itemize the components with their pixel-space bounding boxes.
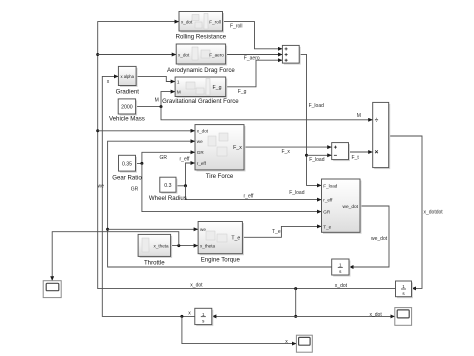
label F_load top xyxy=(309,103,325,109)
svg-text:M: M xyxy=(357,113,361,119)
svg-text:GR: GR xyxy=(131,186,139,192)
svg-text:F_x: F_x xyxy=(282,149,291,155)
subsystem Rolling Resistance xyxy=(176,12,227,41)
scope x_dot (right) xyxy=(395,308,412,326)
svg-text:we_dot: we_dot xyxy=(371,236,388,242)
label F_load bottom xyxy=(289,190,305,196)
wire x position feedback to Gradient xyxy=(102,76,195,316)
svg-text:r_eff: r_eff xyxy=(244,193,255,199)
svg-text:F_roll: F_roll xyxy=(209,19,221,24)
node x_dot branch to Aerodynamic Drag xyxy=(96,53,176,56)
svg-text:T_e: T_e xyxy=(231,235,240,241)
wire F_load from Add xyxy=(299,54,321,185)
svg-text:T_e: T_e xyxy=(323,224,331,229)
svg-text:Vehicle Mass: Vehicle Mass xyxy=(109,115,145,122)
sum block Add (F_roll+F_aero+F_g) xyxy=(282,45,300,64)
svg-text:x_theta: x_theta xyxy=(200,243,216,248)
svg-text:x_dot: x_dot xyxy=(178,52,190,57)
svg-text:we: we xyxy=(197,139,203,144)
svg-text:2000: 2000 xyxy=(121,105,133,111)
label M near Vehicle Mass xyxy=(155,97,159,103)
svg-text:x_dot: x_dot xyxy=(370,312,383,318)
label T_e xyxy=(272,229,281,235)
label x_dotdot xyxy=(424,209,444,215)
svg-text:GR: GR xyxy=(323,210,331,215)
svg-text:Rolling Resistance: Rolling Resistance xyxy=(176,34,227,41)
svg-text:F_t: F_t xyxy=(352,155,360,161)
label GR lower xyxy=(131,186,139,192)
sum block Sum (F_x - F_load) xyxy=(332,143,350,162)
svg-text:x: x xyxy=(188,310,191,316)
svg-text:F_g: F_g xyxy=(213,85,222,91)
node r_eff branch to we_dot subsystem xyxy=(184,184,321,199)
svg-text:F_load: F_load xyxy=(309,157,325,163)
label F_g xyxy=(238,89,247,95)
svg-text:M: M xyxy=(177,89,181,94)
label F_aero xyxy=(244,56,260,62)
svg-text:GR: GR xyxy=(197,150,205,155)
node x_theta branch to scope1 xyxy=(52,232,180,281)
svg-text:Tire Force: Tire Force xyxy=(206,173,234,180)
label M near divide xyxy=(357,113,361,119)
svg-text:x_dot: x_dot xyxy=(335,283,348,289)
svg-text:x_dot: x_dot xyxy=(190,283,203,289)
wire F_roll xyxy=(223,22,283,49)
wire M from Vehicle Mass xyxy=(136,92,175,107)
label F_load mid xyxy=(309,157,325,163)
label GR upper xyxy=(160,155,168,161)
wire x_dotdot Divide to integrator2 xyxy=(390,136,422,288)
svg-text:M: M xyxy=(155,97,159,103)
label F_t xyxy=(352,155,360,161)
node GR branch to we_dot subsystem xyxy=(140,162,321,212)
svg-text:Engine Torque: Engine Torque xyxy=(201,257,241,264)
label x_dot before scope xyxy=(370,312,383,318)
svg-text:1: 1 xyxy=(177,79,180,84)
svg-text:x alpha: x alpha xyxy=(120,74,134,79)
wire alpha Gradient to Gravitational xyxy=(136,76,175,81)
label x near Gradient xyxy=(107,79,110,85)
integrator 1/s we xyxy=(332,259,351,277)
svg-text:x: x xyxy=(107,79,110,85)
svg-text:0.35: 0.35 xyxy=(122,162,132,168)
label x at integrator3 xyxy=(188,310,191,316)
svg-text:we_dot: we_dot xyxy=(343,204,359,210)
wire T_e Engine Torque to we_dot subsystem xyxy=(242,226,321,237)
node x branch to scope3 xyxy=(180,315,296,344)
block Gradient xyxy=(116,66,140,95)
wire r_eff from Wheel Radius to Tire Force xyxy=(176,163,195,186)
node x_dot branch to Tire Force xyxy=(96,129,195,132)
svg-text:r_eff: r_eff xyxy=(323,198,333,203)
svg-text:Aerodynamic Drag Force: Aerodynamic Drag Force xyxy=(167,67,235,74)
label F_roll xyxy=(230,23,243,29)
wire F_g xyxy=(226,60,282,87)
svg-text:we: we xyxy=(200,227,206,232)
label r_eff long run xyxy=(244,193,255,199)
svg-text:we: we xyxy=(98,184,105,190)
svg-text:F_load: F_load xyxy=(309,103,325,109)
svg-text:x_dot: x_dot xyxy=(181,19,193,24)
node M branch to Divide xyxy=(160,105,373,120)
svg-text:Throttle: Throttle xyxy=(144,259,165,266)
integrator 1/s x_dot xyxy=(396,281,414,298)
wire we_dot to integrator1 xyxy=(349,206,389,267)
svg-text:1: 1 xyxy=(339,262,342,267)
integrator 1/s x xyxy=(195,308,214,326)
subsystem Aerodynamic Drag Force xyxy=(167,44,235,74)
wire GR from Gear Ratio to Tire Force xyxy=(136,152,195,163)
wire F_t Sum to Divide xyxy=(349,151,373,153)
svg-text:GR: GR xyxy=(160,155,168,161)
label x_dot bottom mid xyxy=(335,283,348,289)
svg-text:F_load: F_load xyxy=(289,190,305,196)
divide block (F/M) xyxy=(373,102,391,169)
scope x (bottom) xyxy=(296,335,312,352)
subsystem Gravitational Gradient Force xyxy=(162,77,239,105)
wire F_aero xyxy=(226,54,283,56)
wire x_theta Throttle to Engine Torque xyxy=(171,245,198,247)
subsystem we_dot (drivetrain dynamics) xyxy=(322,179,362,234)
svg-text:T_e: T_e xyxy=(272,229,281,235)
wire x_dot to scope2 xyxy=(296,315,395,317)
node F_load branch to Sum xyxy=(305,154,331,157)
svg-text:Gear Ratio: Gear Ratio xyxy=(112,174,142,181)
svg-text:F_load: F_load xyxy=(323,183,337,188)
label x_dot bottom left xyxy=(190,283,203,289)
subsystem Tire Force xyxy=(195,125,246,180)
svg-text:Wheel Radius: Wheel Radius xyxy=(149,195,187,202)
wire x_dot to integrator3 xyxy=(212,315,296,317)
constant Wheel Radius 0.3 xyxy=(149,177,187,202)
node x_dot drop junction xyxy=(294,287,297,318)
subsystem Throttle xyxy=(138,234,172,266)
svg-text:r_eff: r_eff xyxy=(180,156,191,162)
svg-text:x_dotdot: x_dotdot xyxy=(424,209,444,215)
label we_dot wire xyxy=(371,236,388,242)
svg-text:F_roll: F_roll xyxy=(230,23,243,29)
label r_eff near Tire xyxy=(180,156,191,162)
wire F_x Tire Force to Sum xyxy=(244,146,331,148)
svg-text:F_g: F_g xyxy=(238,89,247,95)
scope x_theta (left) xyxy=(43,281,61,298)
svg-text:r_eff: r_eff xyxy=(197,161,207,166)
label x before scope3 xyxy=(285,339,288,345)
node we branch to Engine Torque xyxy=(106,228,198,231)
svg-text:1: 1 xyxy=(402,284,405,289)
svg-text:F_x: F_x xyxy=(233,145,242,151)
svg-text:0.3: 0.3 xyxy=(164,183,171,189)
label F_x xyxy=(282,149,291,155)
svg-text:F_aero: F_aero xyxy=(244,56,260,62)
svg-text:Gravitational Gradient Force: Gravitational Gradient Force xyxy=(162,98,239,105)
constant Gear Ratio 0.35 xyxy=(112,155,142,181)
svg-text:1: 1 xyxy=(202,312,205,317)
svg-text:Gradient: Gradient xyxy=(116,88,140,95)
wire x_dot main feedback (integrator2 output, left and up to top) xyxy=(98,22,396,289)
subsystem Engine Torque xyxy=(198,222,244,264)
wire we feedback to Tire Force xyxy=(108,141,332,267)
svg-text:F_aero: F_aero xyxy=(209,52,224,57)
svg-text:x_theta: x_theta xyxy=(154,243,170,248)
svg-text:x_dot: x_dot xyxy=(197,129,209,134)
constant Vehicle Mass 2000 xyxy=(109,99,145,123)
label we xyxy=(98,184,105,190)
